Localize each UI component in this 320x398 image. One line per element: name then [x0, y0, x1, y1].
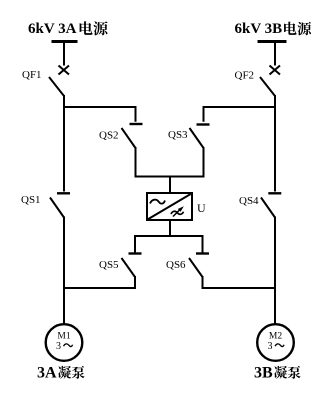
- svg-text:M1: M1: [57, 332, 70, 342]
- breaker QF2 (X contact + open blade): [260, 66, 280, 97]
- svg-text:QF1: QF1: [22, 69, 42, 81]
- wire: source B drop to QF2: [274, 42, 276, 66]
- svg-text:QS3: QS3: [168, 129, 188, 141]
- frequency converter U box: [147, 193, 192, 220]
- terminal bar A: [52, 40, 78, 43]
- converter AC input tilde: [150, 200, 165, 204]
- svg-text:M2: M2: [269, 332, 282, 342]
- svg-text:3: 3: [56, 341, 61, 352]
- source B label "6kV 3B电源": [235, 21, 312, 37]
- label 3~ (M2): [268, 341, 285, 352]
- wire: QS1 down to M1 with QS5 junction: [63, 217, 65, 325]
- motor M1 circle: [46, 324, 83, 361]
- wire: converter output: [169, 220, 171, 237]
- breaker QF1 (X contact + open blade): [49, 66, 69, 97]
- pump label "3A凝泵": [37, 365, 85, 382]
- wire: QS6 to right bus: [203, 276, 276, 288]
- wire: source A drop to QF1: [63, 42, 65, 66]
- disconnector QS3 (contact tick + open blade): [190, 125, 210, 149]
- converter diagonal: [148, 194, 192, 220]
- wire: branch B to QS3: [204, 107, 276, 122]
- converter variable-frequency output symbol: [171, 206, 184, 216]
- terminal bar B: [258, 40, 287, 43]
- label 3~ (M1): [56, 341, 73, 352]
- wire: QS5 to left bus: [64, 276, 135, 288]
- disconnector QS2 (contact tick + open blade): [122, 124, 143, 148]
- pump label "3B凝泵": [254, 365, 301, 382]
- wire: QS4 down to M2 with QS6 junction: [274, 217, 276, 325]
- svg-text:3A: 3A: [37, 365, 57, 382]
- wire: QF2 to QS4 (right bus vertical): [274, 95, 276, 192]
- disconnector QS6 (contact tick + open blade): [189, 254, 209, 278]
- svg-text:QS2: QS2: [99, 130, 119, 142]
- wire: node into converter: [169, 176, 171, 194]
- splitter bar to QS5/QS6: [135, 236, 203, 253]
- motor M2 circle: [257, 324, 294, 361]
- wire: QF1 to QS1 (left bus vertical): [63, 95, 65, 192]
- disconnector QS1 (contact tick + open blade): [50, 193, 70, 217]
- svg-text:QF2: QF2: [235, 70, 255, 82]
- svg-text:QS5: QS5: [99, 259, 119, 271]
- svg-text:3: 3: [268, 341, 273, 352]
- svg-text:QS1: QS1: [21, 194, 41, 206]
- wire: QS2 to converter input: [136, 147, 172, 177]
- svg-text:QS4: QS4: [239, 195, 259, 207]
- source A label "6kV 3A电源": [28, 21, 108, 37]
- svg-text:6kV 3A: 6kV 3A: [28, 21, 77, 37]
- wire: branch A to QS2: [64, 107, 136, 122]
- svg-text:6kV 3B: 6kV 3B: [235, 21, 283, 37]
- svg-text:U: U: [197, 201, 206, 215]
- disconnector QS5 (contact tick + open blade): [122, 254, 142, 278]
- disconnector QS4 (contact tick + open blade): [261, 193, 281, 217]
- svg-text:QS6: QS6: [166, 259, 186, 271]
- wire: QS3 to converter input: [170, 147, 204, 177]
- svg-text:3B: 3B: [254, 365, 273, 382]
